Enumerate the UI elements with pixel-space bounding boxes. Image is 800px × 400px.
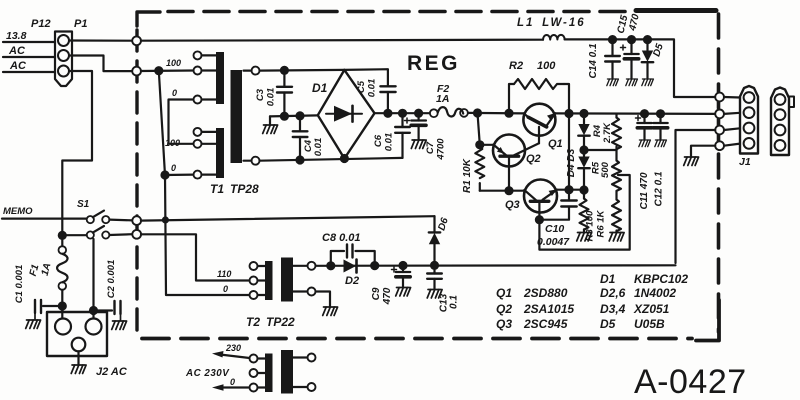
svg-text:C11 470: C11 470 bbox=[639, 172, 650, 210]
wire Q3 base line bbox=[480, 190, 525, 192]
svg-text:A-0427: A-0427 bbox=[634, 363, 747, 400]
ground bridge mid bbox=[263, 125, 278, 134]
T1 primary tap 1 bbox=[194, 51, 202, 59]
ground C13 bbox=[427, 290, 442, 299]
node T1 feed junction bbox=[155, 67, 162, 74]
node R2 left junction bbox=[506, 110, 513, 117]
wire S1 pole2 to border bbox=[109, 233, 132, 236]
wire DC output line bbox=[375, 112, 430, 114]
svg-text:C12 0.1: C12 0.1 bbox=[654, 171, 665, 206]
svg-text:KBPC102: KBPC102 bbox=[634, 272, 688, 286]
wire bridge top to C5 bbox=[344, 69, 388, 86]
wire T2 tap1 stub bbox=[258, 265, 266, 267]
svg-text:Q1: Q1 bbox=[548, 138, 563, 150]
node C8 loop left junction bbox=[327, 262, 334, 269]
node R2 right junction bbox=[566, 110, 573, 117]
inductor L1 bbox=[543, 35, 565, 40]
svg-text:1N4002: 1N4002 bbox=[634, 286, 676, 300]
svg-text:0.0047: 0.0047 bbox=[537, 236, 570, 248]
svg-text:R2: R2 bbox=[509, 60, 523, 72]
T1 primary tap 4 bbox=[194, 128, 202, 136]
transformer AC primary winding bbox=[265, 354, 273, 393]
wire AC tap2 stub bbox=[258, 372, 266, 374]
wire J1 stub1 bbox=[724, 96, 740, 99]
svg-text:0.01: 0.01 bbox=[384, 133, 395, 152]
node AC2 border circle bbox=[132, 67, 141, 76]
resistor R4 bbox=[612, 114, 621, 150]
wire T2 sec bottom to ground bbox=[316, 292, 331, 307]
transformer AC secondary winding bbox=[281, 350, 293, 394]
svg-text:C7: C7 bbox=[425, 141, 436, 154]
wire mid line ground stub bbox=[269, 116, 271, 124]
wire T1 0-tap link bbox=[165, 174, 194, 177]
svg-text:2.7K: 2.7K bbox=[602, 122, 613, 144]
P1 pin 1 bbox=[58, 35, 69, 46]
node J1 feed pin3 circle bbox=[715, 126, 724, 135]
capacitor C6 bbox=[395, 113, 410, 158]
resistor R5 bbox=[612, 150, 621, 200]
svg-text:XZ051: XZ051 bbox=[633, 302, 670, 316]
transistor Q1 bbox=[523, 104, 555, 144]
ground C7 bbox=[411, 140, 426, 149]
svg-text:REG: REG bbox=[407, 52, 460, 75]
T1 primary tap 3 bbox=[194, 96, 202, 104]
T1 secondary terminal bottom bbox=[252, 157, 260, 165]
svg-text:Q1: Q1 bbox=[496, 286, 512, 300]
J1 mate pin 3 bbox=[775, 125, 786, 136]
resistor R6 bbox=[612, 200, 621, 232]
wire tap3 stub bbox=[202, 98, 217, 100]
transistor Q3 bbox=[524, 180, 584, 220]
node J1 feed pin2 circle bbox=[715, 110, 724, 119]
node C6 top junction bbox=[399, 110, 406, 117]
wire AC tap1 stub bbox=[258, 357, 266, 359]
T1 secondary terminal top bbox=[252, 67, 260, 75]
dashed enclosure border bottom bbox=[142, 337, 692, 341]
svg-text:C1 0.001: C1 0.001 bbox=[14, 265, 25, 304]
svg-text:0: 0 bbox=[172, 88, 177, 98]
svg-text:C8 0.01: C8 0.01 bbox=[322, 232, 361, 244]
dashed enclosure border right bbox=[717, 14, 721, 332]
wire J1 pin3 feed bbox=[676, 130, 716, 263]
wire T2 sec bottom stub bbox=[293, 290, 308, 292]
wire J2 right pin up to switch bbox=[92, 239, 94, 318]
svg-text:500: 500 bbox=[600, 161, 611, 178]
J1 pin 3 bbox=[744, 123, 755, 134]
wire AC2 from P1 down to S1 column bbox=[62, 71, 92, 246]
svg-text:AC 230V: AC 230V bbox=[185, 368, 230, 379]
transistor Q2 bbox=[480, 135, 539, 191]
capacitor C3 bbox=[277, 70, 292, 116]
J2 pin earth bbox=[72, 338, 86, 352]
wire L1 to J1 pin1 bbox=[565, 39, 716, 97]
svg-text:R3 100: R3 100 bbox=[585, 210, 596, 241]
resistor R2 bbox=[509, 79, 569, 114]
node D6 bottom junction bbox=[431, 262, 438, 269]
resistor R1 bbox=[475, 113, 484, 191]
wire 13.8 line to L1 bbox=[141, 40, 543, 41]
wire J1 stub2 bbox=[724, 113, 740, 114]
svg-text:J1: J1 bbox=[739, 156, 751, 168]
node C12 top junction bbox=[657, 110, 664, 117]
wire reference node link bbox=[584, 149, 617, 151]
svg-text:D4 D3: D4 D3 bbox=[566, 148, 577, 177]
svg-text:T1 TP28: T1 TP28 bbox=[210, 182, 259, 196]
svg-text:AC: AC bbox=[8, 45, 26, 57]
svg-text:MEMO: MEMO bbox=[3, 206, 33, 217]
svg-text:470: 470 bbox=[382, 287, 393, 305]
dashed enclosure border left bbox=[135, 30, 138, 336]
svg-text:Q3: Q3 bbox=[505, 199, 520, 211]
capacitor C14 bbox=[605, 40, 620, 78]
svg-text:D5: D5 bbox=[600, 317, 616, 331]
svg-text:0.01: 0.01 bbox=[367, 79, 378, 98]
connector P1 body bbox=[55, 32, 72, 87]
ground C9 bbox=[396, 288, 411, 297]
P1 pin 2 bbox=[58, 50, 69, 61]
capacitor C9 electrolytic bbox=[392, 266, 411, 287]
node C10 bottom junction bbox=[536, 216, 543, 223]
svg-text:D2,6: D2,6 bbox=[600, 286, 626, 300]
wire T2 tap3 stub bbox=[258, 294, 266, 296]
diode D3 bbox=[578, 114, 589, 151]
svg-text:C5: C5 bbox=[356, 80, 367, 93]
wire J1 stub3 bbox=[724, 128, 740, 130]
diode D6 bbox=[429, 216, 440, 265]
wire bridge minus mid line bbox=[270, 115, 318, 116]
svg-text:D1: D1 bbox=[600, 272, 616, 286]
node bridge bottom junction bbox=[341, 155, 348, 162]
node C1 tap bbox=[59, 303, 66, 310]
node C7 top junction bbox=[415, 110, 422, 117]
wire MEMO line bbox=[2, 218, 87, 220]
wire R2R drop vertical bbox=[568, 114, 570, 201]
svg-text:Q2: Q2 bbox=[526, 153, 541, 165]
J1 pin 1 bbox=[744, 92, 755, 103]
wire T1 sec bottom stub bbox=[244, 160, 252, 162]
node C15 top junction bbox=[628, 36, 635, 43]
node J1 feed pin1 circle bbox=[715, 93, 724, 102]
wire S1 pole2 feed bbox=[62, 234, 86, 236]
wire S1 pole1 to border bbox=[109, 219, 132, 222]
svg-text:0.01: 0.01 bbox=[313, 138, 324, 157]
svg-text:D2: D2 bbox=[345, 275, 359, 287]
svg-text:C2 0.001: C2 0.001 bbox=[106, 260, 117, 299]
transformer T1 primary winding lower bbox=[216, 128, 224, 178]
J2 pin right bbox=[86, 319, 102, 335]
capacitor C7 electrolytic bbox=[405, 113, 427, 139]
wire T1 sec top stub bbox=[244, 69, 252, 71]
transformer T1 primary winding upper bbox=[216, 52, 224, 104]
node C4 top junction bbox=[297, 112, 304, 119]
wire tap3 to tap5 series link bbox=[169, 100, 194, 144]
svg-text:100: 100 bbox=[165, 138, 180, 148]
AC transformer primary tap 1 bbox=[250, 355, 258, 363]
switch S1 pole 1 bbox=[87, 211, 110, 224]
wire arrow 230 bbox=[212, 351, 250, 358]
ground C1 bbox=[26, 320, 41, 329]
wire tap1 stub bbox=[202, 54, 217, 56]
svg-text:Q2: Q2 bbox=[496, 302, 512, 316]
connector J1 mate body bbox=[771, 88, 789, 156]
node Q3 emitter tap bbox=[566, 186, 573, 193]
svg-text:P1: P1 bbox=[74, 18, 87, 30]
svg-text:0.1: 0.1 bbox=[449, 295, 460, 309]
wire line-B to T2 bbox=[141, 234, 250, 280]
wire AC tap3 stub bbox=[258, 386, 266, 388]
J1 mate tab bbox=[789, 97, 794, 108]
svg-text:2SD880: 2SD880 bbox=[523, 286, 568, 300]
T2 primary tap 1 bbox=[250, 262, 258, 270]
ground T2 secondary bbox=[323, 307, 338, 316]
svg-text:0: 0 bbox=[223, 284, 228, 294]
connector J1 body bbox=[740, 86, 758, 154]
label AC1 underline bbox=[3, 56, 55, 58]
wire arrow 0 bbox=[212, 384, 250, 391]
wire T2 tap2 stub bbox=[258, 279, 266, 281]
wire memo line inside bbox=[141, 216, 435, 220]
wire F1 to J2 bbox=[61, 290, 63, 318]
ground C14 bbox=[607, 79, 619, 86]
capacitor C10 bbox=[539, 201, 576, 220]
wire AC1 inside to T1 tap bbox=[141, 69, 194, 72]
capacitor C8 loop bbox=[331, 245, 375, 266]
ground C12 bbox=[655, 140, 667, 147]
svg-text:U05B: U05B bbox=[634, 317, 665, 331]
node MEMO border circle bbox=[132, 216, 141, 225]
AC secondary terminal bottom bbox=[308, 383, 316, 391]
svg-text:230: 230 bbox=[225, 343, 241, 353]
svg-text:100: 100 bbox=[537, 60, 556, 72]
capacitor C15 electrolytic bbox=[621, 40, 639, 78]
node T1 0-tap junction bbox=[162, 172, 169, 179]
dashed enclosure border top bbox=[137, 11, 716, 27]
T2 secondary terminal top bbox=[308, 262, 316, 270]
svg-text:0: 0 bbox=[230, 377, 235, 387]
ground C11 bbox=[639, 140, 651, 147]
node memo crossing junction bbox=[163, 218, 168, 223]
P1 pin 3 bbox=[58, 66, 69, 77]
AC transformer primary tap 3 bbox=[250, 384, 258, 392]
transformer T1 secondary winding bbox=[231, 70, 243, 163]
svg-text:0.01: 0.01 bbox=[266, 88, 277, 107]
capacitor C1 bbox=[35, 300, 59, 319]
ground R3 bbox=[577, 233, 592, 242]
ground C2 bbox=[112, 321, 127, 330]
ground D5 bbox=[642, 79, 654, 86]
J1 mate pin 2 bbox=[775, 109, 786, 120]
wire J1 stub4 bbox=[724, 144, 740, 146]
node C5 bottom junction bbox=[384, 110, 391, 117]
node C11 top junction bbox=[641, 110, 648, 117]
wire AC sec top stub bbox=[293, 356, 308, 358]
svg-text:T2 TP22: T2 TP22 bbox=[246, 315, 295, 329]
J2 pin left bbox=[55, 319, 71, 335]
ground C15 bbox=[626, 79, 638, 86]
node C3 bottom junction bbox=[281, 113, 288, 120]
node AC1 border circle bbox=[132, 36, 141, 45]
node R1 top junction bbox=[474, 110, 481, 117]
transformer T2 primary winding bbox=[265, 261, 273, 300]
wire 13.8 from P1 to border bbox=[69, 39, 133, 41]
ground J1 pin4 bbox=[684, 157, 699, 166]
diode D2 bbox=[344, 260, 357, 273]
wire bridge AC top line bbox=[260, 69, 345, 72]
T2 secondary terminal bottom bbox=[308, 288, 316, 296]
node C3 top junction bbox=[281, 67, 288, 74]
T1 primary tap 5 bbox=[194, 140, 202, 148]
node C2 tap bbox=[90, 307, 97, 314]
J1 pin 2 bbox=[744, 107, 755, 118]
svg-text:P12: P12 bbox=[31, 18, 51, 30]
svg-text:S1: S1 bbox=[77, 199, 90, 210]
wire tap2 stub bbox=[202, 69, 217, 71]
node Q2 base junction bbox=[506, 187, 513, 194]
wire T1 feed vertical bbox=[159, 71, 250, 295]
wire AC sec bottom stub bbox=[293, 386, 308, 388]
node D3-R4 junction bbox=[581, 147, 588, 154]
diode D5 bbox=[642, 40, 653, 78]
svg-text:13.8: 13.8 bbox=[6, 30, 27, 42]
svg-text:C9: C9 bbox=[371, 287, 382, 300]
wire rail Q1 to J1 bbox=[555, 112, 715, 115]
wire tap4 stub bbox=[202, 131, 217, 133]
svg-text:4700: 4700 bbox=[436, 138, 447, 161]
svg-text:Q3: Q3 bbox=[496, 317, 512, 331]
svg-text:2SA1015: 2SA1015 bbox=[523, 302, 574, 316]
svg-text:1A: 1A bbox=[436, 93, 449, 105]
T2 primary tap 2 bbox=[250, 277, 258, 285]
J1 pin 4 bbox=[744, 138, 755, 149]
node C8 loop right junction bbox=[371, 262, 378, 269]
ground R6 bbox=[609, 233, 624, 242]
node C4 bottom junction bbox=[297, 157, 304, 164]
svg-text:C6: C6 bbox=[373, 134, 384, 147]
node J1 feed pin4 circle bbox=[715, 141, 724, 150]
transformer T2 secondary winding bbox=[281, 258, 293, 302]
diode D4 bbox=[578, 150, 589, 190]
wire rail fuse to Q1 bbox=[468, 112, 524, 115]
svg-text:C10: C10 bbox=[545, 223, 564, 235]
node D4-R3 junction bbox=[581, 187, 588, 194]
switch S1 pole 2 bbox=[87, 226, 110, 239]
J1 mate pin 4 bbox=[775, 140, 786, 151]
wire J2 earth stub bbox=[77, 351, 79, 364]
capacitor C2 bbox=[94, 301, 121, 320]
socket J2 body bbox=[47, 312, 107, 356]
wire bridge AC bottom line bbox=[260, 158, 403, 161]
svg-text:2SC945: 2SC945 bbox=[523, 317, 568, 331]
D1 inner diode bbox=[326, 106, 362, 122]
node D3 top junction bbox=[581, 110, 588, 117]
fuse F1 bbox=[57, 246, 68, 290]
wire J1 pin4 ground feed bbox=[691, 146, 715, 156]
svg-text:0: 0 bbox=[171, 163, 176, 173]
svg-text:D3,4: D3,4 bbox=[600, 302, 626, 316]
wire tap6 stub bbox=[202, 174, 217, 176]
svg-text:R1 10K: R1 10K bbox=[462, 158, 473, 193]
wire rectified line bbox=[316, 264, 676, 267]
node Q2 emitter junction bbox=[476, 141, 483, 148]
svg-text:L1 LW-16: L1 LW-16 bbox=[517, 17, 586, 29]
T1 primary tap 2 bbox=[194, 67, 202, 75]
bridge rectifier D1 diamond bbox=[318, 70, 375, 159]
T2 primary tap 3 bbox=[250, 291, 258, 299]
svg-text:110: 110 bbox=[217, 269, 231, 279]
svg-text:J2 AC: J2 AC bbox=[96, 366, 128, 378]
svg-text:R6 1K: R6 1K bbox=[596, 209, 607, 237]
svg-text:100: 100 bbox=[166, 58, 181, 68]
node C14 top junction bbox=[609, 36, 616, 43]
node S1 pole2 feed junction bbox=[59, 232, 66, 239]
node C9 top junction bbox=[400, 262, 407, 269]
J1 mate pin 1 bbox=[775, 94, 786, 105]
capacitor C13 bbox=[427, 265, 442, 288]
node line-B border circle bbox=[132, 230, 141, 239]
node D5 top junction bbox=[644, 36, 651, 43]
wire C10 box bottom and right bbox=[539, 175, 629, 250]
svg-text:D1: D1 bbox=[312, 81, 328, 95]
T1 primary tap 6 bbox=[194, 171, 202, 179]
wire tap5 stub bbox=[202, 143, 217, 145]
ground J2 bbox=[71, 365, 86, 374]
label 13.8 underline bbox=[3, 41, 55, 43]
wire AC1 from P1 bbox=[69, 56, 133, 72]
AC secondary terminal top bbox=[308, 354, 316, 362]
capacitor C4 bbox=[293, 116, 308, 160]
fuse F2 bbox=[430, 107, 468, 117]
svg-text:AC: AC bbox=[9, 60, 27, 72]
border bottom-right solid corner bbox=[696, 300, 719, 341]
label AC2 underline bbox=[3, 71, 55, 73]
capacitor C11 electrolytic bbox=[636, 114, 652, 139]
capacitor C5 bbox=[380, 86, 395, 113]
AC transformer primary tap 2 bbox=[250, 369, 258, 377]
resistor R3 bbox=[580, 190, 589, 232]
svg-text:C14 0.1: C14 0.1 bbox=[588, 43, 599, 78]
wire T2 sec top stub bbox=[293, 265, 308, 267]
capacitor C12 bbox=[653, 114, 667, 139]
svg-text:C3: C3 bbox=[255, 88, 266, 101]
